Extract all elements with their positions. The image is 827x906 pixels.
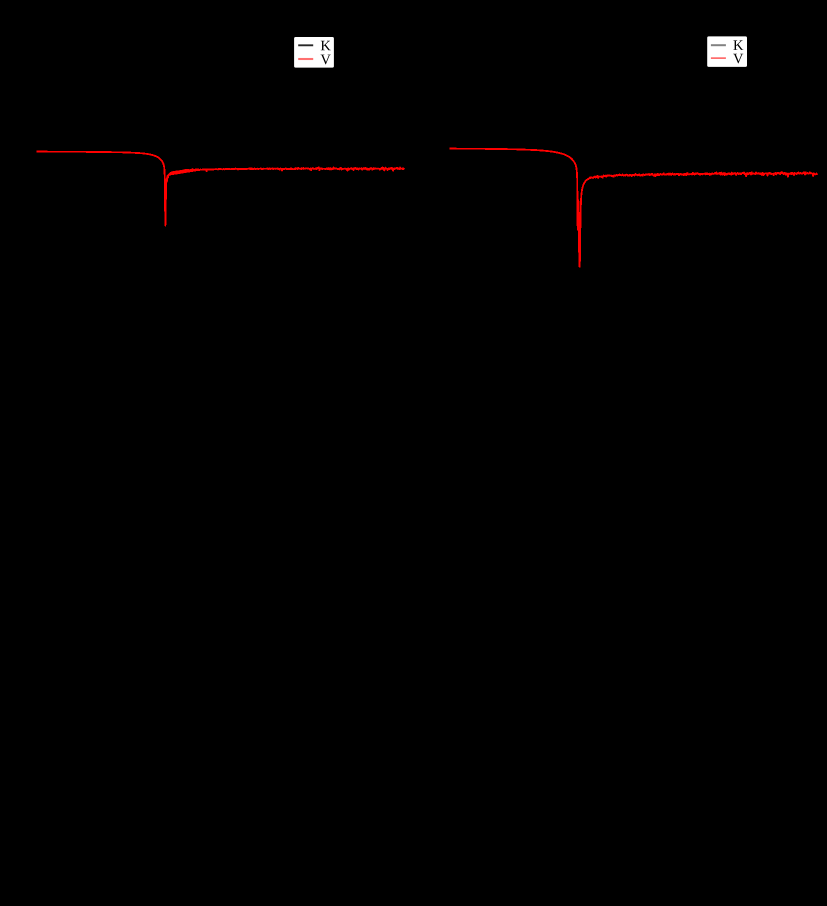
left legend K sample line [298,44,313,46]
right legend label K [733,40,743,49]
left legend label K [321,41,331,50]
left plot: V curve (red) [36,152,404,226]
right legend label V [733,54,743,64]
right legend K sample line [711,44,726,46]
left legend label V [321,55,331,65]
right plot: V curve (red) [450,149,818,267]
right legend frame [707,36,747,67]
left legend frame [294,37,334,68]
left legend V sample line [298,58,313,60]
right legend V sample line [711,57,726,59]
